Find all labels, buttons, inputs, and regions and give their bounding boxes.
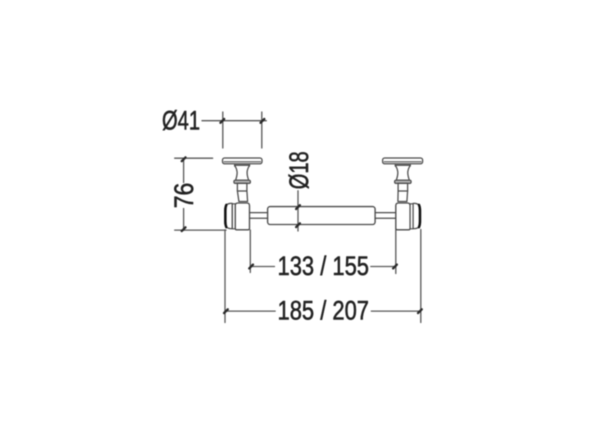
tick 76 top <box>182 157 186 161</box>
right post neck shaded band <box>395 164 410 166</box>
svg-text:133 / 155: 133 / 155 <box>278 251 370 281</box>
right post wall flange <box>383 158 423 164</box>
left post neck shaded band <box>234 164 249 166</box>
dimension 133/155 line <box>250 266 395 268</box>
right post neck (hourglass) <box>395 165 410 180</box>
tick 185/207 left <box>224 309 228 313</box>
dimension 185/207 extension left <box>224 230 226 323</box>
left connector rod <box>250 213 268 219</box>
svg-text:185 / 207: 185 / 207 <box>278 296 370 326</box>
left post flare ring <box>234 180 251 183</box>
right post flange inner line <box>384 161 421 163</box>
dimension 76 line <box>183 158 185 230</box>
right post cap shaded edge <box>418 205 421 227</box>
right post ring <box>410 204 413 229</box>
tick 133/155 right <box>393 265 397 269</box>
left post cylinder joint line <box>237 190 247 192</box>
left post cap shaded edge <box>224 205 227 227</box>
tick Ø41 right <box>261 119 265 123</box>
tick 133/155 left <box>249 265 253 269</box>
dimension Ø41 line <box>202 120 266 122</box>
dimension 133/155 extension right <box>395 230 397 274</box>
right post flare ring <box>395 180 412 183</box>
right connector rod <box>375 213 396 219</box>
dimension Ø41 extension left <box>222 112 224 148</box>
svg-text:76: 76 <box>169 183 199 209</box>
left post ring <box>232 204 235 229</box>
tick Ø18 top <box>296 205 300 209</box>
dimension Ø18 line <box>297 191 299 231</box>
right post cylinder joint line <box>398 190 408 192</box>
dimension Ø41 extension right <box>261 112 263 148</box>
left post small cylinder and taper <box>237 183 247 201</box>
dimension 76 top extension <box>175 157 213 159</box>
left post flange inner line <box>224 161 261 163</box>
left post main body <box>235 203 249 230</box>
left post neck (hourglass) <box>235 165 250 180</box>
right post outer cap <box>413 203 421 228</box>
tick 76 bottom <box>182 227 186 231</box>
dimension 76 bottom extension <box>175 229 226 231</box>
svg-text:Ø18: Ø18 <box>284 151 314 189</box>
left post wall flange <box>223 158 263 164</box>
dimension 133/155 extension left <box>249 230 251 273</box>
tick Ø41 left <box>220 119 224 123</box>
bar tube <box>268 207 376 225</box>
right post small cylinder and taper <box>398 183 408 201</box>
svg-text:Ø41: Ø41 <box>162 106 200 136</box>
dimension 185/207 line <box>225 310 421 312</box>
tick Ø18 bottom <box>296 223 300 227</box>
tick 185/207 right <box>418 309 422 313</box>
right post main body <box>396 203 410 230</box>
dimension 185/207 extension right <box>420 230 422 323</box>
left post outer cap <box>225 203 233 228</box>
